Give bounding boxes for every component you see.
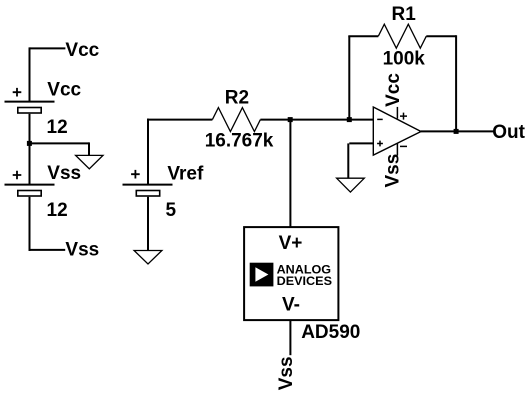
- svg-text:5: 5: [166, 200, 177, 221]
- svg-text:DEVICES: DEVICES: [277, 276, 333, 288]
- svg-text:100k: 100k: [383, 48, 426, 69]
- svg-text:Vcc: Vcc: [65, 40, 99, 61]
- svg-text:Vcc: Vcc: [47, 80, 81, 101]
- svg-text:ANALOG: ANALOG: [277, 264, 332, 276]
- svg-text:Out: Out: [492, 122, 525, 143]
- svg-text:R1: R1: [392, 4, 417, 25]
- svg-text:16.767k: 16.767k: [205, 131, 274, 152]
- svg-text:12: 12: [47, 200, 68, 221]
- svg-text:Vref: Vref: [167, 164, 204, 185]
- svg-text:Vss: Vss: [47, 163, 81, 184]
- svg-text:R2: R2: [225, 87, 249, 108]
- svg-text:Vss: Vss: [65, 239, 99, 260]
- svg-text:Vcc: Vcc: [383, 73, 404, 107]
- svg-text:V+: V+: [279, 233, 303, 254]
- svg-text:Vss: Vss: [276, 356, 297, 390]
- svg-text:AD590: AD590: [301, 322, 360, 343]
- svg-text:Vss: Vss: [382, 154, 403, 188]
- svg-text:V-: V-: [282, 295, 300, 316]
- svg-text:12: 12: [47, 117, 68, 138]
